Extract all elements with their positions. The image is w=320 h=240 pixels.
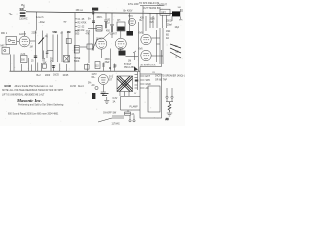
svg-text:16µf: 16µf xyxy=(175,27,180,29)
output transformer T2 xyxy=(160,9,170,15)
svg-text:OUTPUT: OUTPUT xyxy=(158,4,168,6)
svg-text:600 Sound Parad 2000 Live 600: 600 Sound Parad 2000 Live 600 more 2004 … xyxy=(8,113,59,116)
svg-text:1M: 1M xyxy=(67,30,71,34)
svg-text:5Y3: 5Y3 xyxy=(129,16,134,18)
dark label box xyxy=(127,31,134,36)
svg-text:350V: 350V xyxy=(150,19,156,21)
svg-text:Line th: Line th xyxy=(37,16,45,19)
svg-text:LIFT IS UNIVERSAL, AB-30/EC-9: LIFT IS UNIVERSAL, AB-30/EC-96 1 ALT xyxy=(2,94,45,97)
short link wire xyxy=(80,46,87,48)
rectifier V6 xyxy=(128,16,135,26)
svg-text:117VAC: 117VAC xyxy=(112,123,121,126)
wire x93 drop xyxy=(93,13,95,51)
OPT winding lines xyxy=(157,28,164,64)
tone cap C3 xyxy=(45,34,49,59)
switch SW1 label xyxy=(20,7,27,11)
svg-text:47K: 47K xyxy=(86,34,91,36)
filter cap labels xyxy=(106,20,111,33)
ground symbol under V6 xyxy=(101,85,106,95)
svg-text:SPK: SPK xyxy=(146,80,151,82)
jack ticks xyxy=(140,76,145,88)
resistor block lower left xyxy=(21,54,28,63)
svg-text:16/25: 16/25 xyxy=(53,75,59,77)
ground symbol plug xyxy=(166,113,173,121)
svg-text:P.LAMP: P.LAMP xyxy=(130,106,139,109)
svg-text:6V6: 6V6 xyxy=(139,48,144,50)
comp with X xyxy=(64,56,70,63)
rectifier tube V6 circle xyxy=(98,75,114,85)
svg-text:5Y3GT: 5Y3GT xyxy=(124,64,132,66)
svg-text:MIC 1: MIC 1 xyxy=(1,33,8,35)
svg-text:EC96: EC96 xyxy=(5,84,12,88)
svg-text:2A: 2A xyxy=(132,113,135,116)
cathode resistor R5 xyxy=(42,51,45,61)
output tube V5 6V6 xyxy=(139,48,152,60)
svg-text:Performing and Sold to Our She: Performing and Sold to Our Sheet Gatheri… xyxy=(18,104,64,107)
svg-text:450V: 450V xyxy=(97,17,103,19)
svg-text:MIC 2: MIC 2 xyxy=(1,46,8,48)
fuse F2 xyxy=(125,112,135,116)
labels below ground bus xyxy=(37,75,69,77)
svg-text:VC: VC xyxy=(175,46,179,48)
svg-text:15K 2W: 15K 2W xyxy=(76,10,84,12)
svg-text:.005: .005 xyxy=(75,34,80,36)
terminal strip box xyxy=(92,8,98,11)
svg-text:25мf: 25мf xyxy=(105,62,110,64)
wire to pot xyxy=(126,55,139,57)
svg-text:OR 8Ω TAP: OR 8Ω TAP xyxy=(155,78,167,81)
tube V3 12AX7 xyxy=(110,31,126,49)
svg-text:CH: CH xyxy=(117,20,121,22)
svg-text:C2 .02: C2 .02 xyxy=(78,26,85,28)
wire stub xyxy=(88,28,97,30)
plug body xyxy=(166,99,173,102)
svg-text:100K: 100K xyxy=(86,31,91,33)
wire V2 cathode lead xyxy=(100,49,102,58)
svg-text:25мf: 25мf xyxy=(167,24,172,26)
svg-text:EXT: EXT xyxy=(146,76,151,78)
capacitor C11 xyxy=(110,13,114,38)
wire left rail x138 xyxy=(138,28,140,71)
svg-text:56K: 56K xyxy=(53,30,58,34)
svg-text:117V: 117V xyxy=(92,74,98,76)
wire vertical x143 xyxy=(142,6,144,34)
transformer bottom leads xyxy=(120,92,129,97)
svg-text:R2 470K: R2 470K xyxy=(78,23,87,25)
tap labels xyxy=(166,31,171,40)
svg-text:470Ω 10W: 470Ω 10W xyxy=(128,4,139,6)
ground bus xyxy=(10,70,141,72)
volume pot VR1 xyxy=(30,31,45,59)
small comp at 42 xyxy=(43,62,48,68)
switch lever xyxy=(98,113,124,122)
capacitor C4 xyxy=(31,56,37,63)
ground symbol center xyxy=(104,97,109,104)
dark junction blob xyxy=(92,93,109,99)
svg-text:B+2: B+2 xyxy=(37,75,42,77)
svg-text:1M: 1M xyxy=(30,47,33,49)
B+ bus wire xyxy=(26,12,173,14)
svg-text:C1 .05: C1 .05 xyxy=(78,19,85,21)
comp box right xyxy=(87,44,93,49)
cap C5 on bus xyxy=(52,66,55,68)
pilot lamp tick xyxy=(21,5,25,9)
wire x110 down xyxy=(110,49,112,71)
label 5W xyxy=(10,14,14,16)
resistor box R6 xyxy=(96,26,102,32)
svg-text:5Y3: 5Y3 xyxy=(109,76,114,78)
svg-text:Rev.C: Rev.C xyxy=(78,86,85,88)
svg-text:8Ω: 8Ω xyxy=(166,34,169,36)
plate resistor R9 xyxy=(118,49,126,56)
svg-text:ON-OFF SW: ON-OFF SW xyxy=(103,113,117,115)
svg-text:AC INTERLOCK: AC INTERLOCK xyxy=(141,64,156,67)
svg-text:6V6: 6V6 xyxy=(150,22,155,24)
comp box middle xyxy=(74,46,79,54)
svg-text:10-56: 10-56 xyxy=(70,86,77,88)
svg-text:16Ω: 16Ω xyxy=(166,31,171,33)
svg-text:5%: 5% xyxy=(88,83,91,85)
coupling cap C6 xyxy=(66,39,71,44)
tube V2 12AX7 xyxy=(96,33,110,50)
output tube V4 6V6 xyxy=(139,32,152,44)
svg-text:125: 125 xyxy=(152,72,155,74)
pot VR2 xyxy=(128,51,136,63)
wires right of transformer xyxy=(135,72,138,90)
wire drop node A xyxy=(35,12,37,31)
svg-text:270K: 270K xyxy=(75,31,80,33)
resistor R12 xyxy=(85,65,90,70)
marks left of V2 xyxy=(92,39,98,51)
svg-text:12AX7: 12AX7 xyxy=(19,33,27,36)
wire jack to V1 xyxy=(17,41,19,43)
svg-text:2.2K: 2.2K xyxy=(21,54,26,56)
svg-text:110VAC: 110VAC xyxy=(19,17,28,20)
svg-text:3A: 3A xyxy=(113,100,116,103)
wire V1 to node xyxy=(30,40,35,42)
fan labels xyxy=(175,46,179,59)
svg-text:AC: AC xyxy=(166,118,170,121)
resistor R1 15K xyxy=(75,10,83,71)
svg-text:NOTE: ALL VOLTAGE READINGS TAK: NOTE: ALL VOLTAGE READINGS TAKEN AT 600 … xyxy=(2,89,64,92)
svg-text:350-0-350: 350-0-350 xyxy=(124,67,135,69)
label left column psu xyxy=(92,74,98,87)
svg-text:1500: 1500 xyxy=(105,59,111,61)
input jack MIC1 xyxy=(1,33,17,45)
middle top labels row xyxy=(53,30,91,36)
svg-text:25K: 25K xyxy=(43,62,48,64)
wire x166 xyxy=(166,16,168,29)
cap can C10 body xyxy=(105,22,107,28)
svg-text:TONE: TONE xyxy=(74,58,81,60)
svg-text:Album Studio PM2 Schematic no: Album Studio PM2 Schematic no. 4-A xyxy=(15,85,54,88)
speaker fan wires xyxy=(170,44,181,58)
svg-text:2000: 2000 xyxy=(45,75,51,77)
capacitor C10 xyxy=(104,13,108,29)
cap can C11 body xyxy=(111,26,113,32)
wire V3 cathode lead xyxy=(120,49,122,50)
svg-text:Masonic Inc.: Masonic Inc. xyxy=(16,98,42,103)
resistor R4 220K xyxy=(32,31,38,71)
heater labels xyxy=(113,98,118,103)
power transformer T1 xyxy=(117,76,133,92)
wire interlock xyxy=(140,50,162,74)
cord resistor xyxy=(168,102,171,112)
svg-text:100K: 100K xyxy=(118,49,124,51)
wire V4 plate xyxy=(151,37,160,39)
AC plug wires xyxy=(166,88,173,98)
svg-text:10/25: 10/25 xyxy=(63,75,69,77)
svg-text:JACK TO SPEAKER 140Ω(-): JACK TO SPEAKER 140Ω(-) xyxy=(155,74,185,77)
psu hanging comps above ground bus xyxy=(95,62,138,72)
wires under output xyxy=(146,14,172,32)
fuse F1 xyxy=(19,12,28,20)
input jack MIC2 xyxy=(1,46,10,54)
divider column labels xyxy=(75,19,92,33)
svg-text:250Ω: 250Ω xyxy=(166,21,172,23)
wire B+ rail top xyxy=(138,22,140,28)
svg-text:6V6: 6V6 xyxy=(139,32,144,34)
svg-text:1M: 1M xyxy=(128,61,131,63)
labels output section xyxy=(150,7,184,26)
svg-text:6.3V: 6.3V xyxy=(113,98,118,100)
svg-text:OUT TRANS 500: OUT TRANS 500 xyxy=(143,7,161,10)
lamp circle xyxy=(95,86,98,89)
middle verticals xyxy=(53,31,89,63)
svg-text:~Filter: ~Filter xyxy=(39,21,46,24)
svg-text:220K: 220K xyxy=(32,33,38,35)
wire to plug xyxy=(127,110,129,112)
tube V1 12AX7 xyxy=(19,33,30,47)
title block xyxy=(2,83,91,116)
heater wiring lines xyxy=(121,97,141,111)
svg-text:60~: 60~ xyxy=(92,77,97,79)
chassis outer box xyxy=(140,74,162,118)
choke L1 xyxy=(117,20,125,31)
wire x129 xyxy=(129,13,131,31)
svg-text:8Ω: 8Ω xyxy=(176,51,179,53)
ground drop wires xyxy=(11,55,88,72)
svg-text:OPT: OPT xyxy=(161,13,166,15)
speaker SP1 xyxy=(172,11,180,16)
svg-text:sw: sw xyxy=(64,22,67,24)
svg-text:B+ 420V: B+ 420V xyxy=(124,10,133,12)
note text speaker xyxy=(155,74,185,81)
label top center xyxy=(124,4,140,12)
svg-text:AC: AC xyxy=(146,87,150,90)
wire V1 plate stub xyxy=(24,31,26,36)
svg-text:500K: 500K xyxy=(74,61,80,63)
AC plug P2 xyxy=(129,115,135,122)
svg-text:4Ω: 4Ω xyxy=(166,38,169,40)
label line in xyxy=(37,16,46,24)
paper speckle xyxy=(5,2,183,125)
chassis inner box xyxy=(148,86,160,112)
wire V5 plate xyxy=(151,55,163,57)
svg-text:AC: AC xyxy=(92,84,96,87)
svg-text:12AX7: 12AX7 xyxy=(110,33,118,36)
wire link y50 xyxy=(47,49,53,51)
